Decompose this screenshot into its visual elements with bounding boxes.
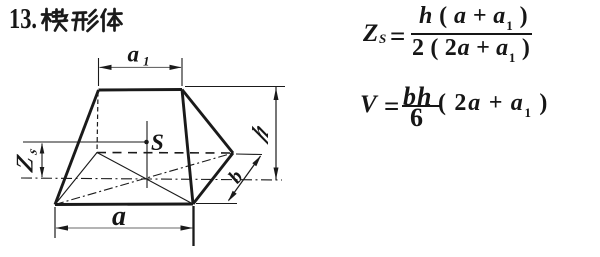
hidden back bottom edge BLback-BRback dashed [97, 152, 233, 155]
char 楔 (wood radical + qi) [42, 9, 67, 31]
numerator bh [403, 82, 432, 112]
dimension a1 extension lines [98, 58, 100, 86]
svg-text:S: S [151, 130, 164, 155]
svg-text:b: b [224, 166, 247, 187]
formula 2: V = bh/6 (2a+a1) [360, 91, 377, 119]
formula 1: Zs = h(a+a1) / (2(2a+a1)) [363, 20, 378, 48]
wedge left slant edge (TL-BL) [55, 90, 99, 205]
dimension h line [275, 87, 277, 180]
char 形 [73, 10, 98, 31]
wedge right end top edge (TR-BRback) [182, 90, 233, 154]
arrow h top [274, 88, 279, 100]
left base edge BL-BLback [55, 153, 97, 205]
arrow a1 left [99, 65, 112, 70]
wedge bottom front edge (BL-BR) [55, 203, 193, 206]
arrow a1 right [170, 65, 182, 70]
svg-text:a: a [112, 201, 126, 232]
centroid horizontal line at S level [23, 141, 146, 143]
wedge right front edge (TR-BR) [182, 90, 193, 205]
dimension a line [56, 227, 193, 229]
arrow a left [56, 225, 69, 230]
centroid vertical line through S [146, 121, 148, 188]
dimension h top extension line [185, 86, 285, 88]
wedge right base edge (BR-BRback) [193, 153, 233, 204]
base diagonal BLback-BR [97, 153, 193, 205]
svg-text:1: 1 [143, 54, 150, 69]
numerator h(a+a1) [419, 3, 529, 34]
arrow b top [252, 156, 261, 167]
label Zs (left dimension, rotated) [12, 142, 39, 176]
svg-text:a: a [128, 42, 140, 67]
arrow Zs top [40, 143, 45, 154]
char 体 [102, 9, 122, 31]
dimension Zs line [41, 144, 43, 178]
arrow h bottom [274, 168, 279, 180]
dimension b line [229, 156, 261, 201]
arrow a right [181, 225, 194, 230]
denominator 2(2a+a1) [412, 35, 531, 66]
denominator 6 [410, 103, 423, 133]
fraction bar 2 [402, 105, 442, 107]
title number 13. [9, 4, 37, 36]
arrow b bottom [228, 191, 237, 202]
dimension a1 line [100, 66, 182, 68]
fraction bar 1 [411, 33, 532, 35]
dimension b extension lines [236, 153, 262, 156]
svg-text:s: s [25, 146, 40, 157]
hidden edge TL-BLback dashed [97, 92, 98, 153]
(2a + a1) [438, 90, 549, 121]
centroid point S [144, 140, 149, 145]
wedge top edge a1 (TL-TR) [99, 88, 183, 91]
base diagonal BL-BRback dash-dot [55, 153, 233, 205]
svg-text:h: h [247, 115, 273, 149]
dimension a extension lines [54, 207, 56, 238]
horizontal centre line dash-dot [21, 178, 282, 180]
arrow Zs bottom [40, 167, 45, 178]
